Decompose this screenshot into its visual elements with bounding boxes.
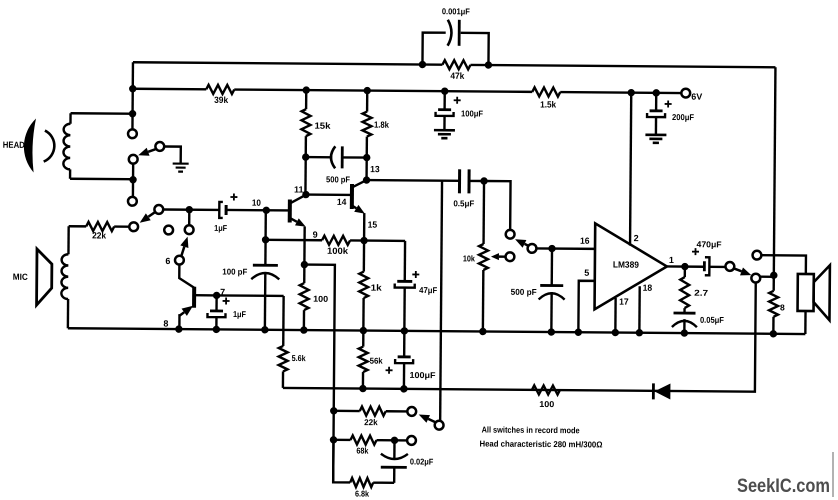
node 500pF left — [302, 153, 309, 160]
resistor 1.8k — [366, 91, 369, 112]
svg-text:2.7: 2.7 — [694, 288, 708, 298]
wire right feedback drop x=773.5 — [774, 67, 776, 275]
node 68k 0.02uF — [391, 437, 398, 444]
node 10k top — [480, 177, 487, 184]
svg-text:17: 17 — [619, 297, 629, 307]
capacitor 0.001uF — [448, 20, 452, 46]
pin 5 wire — [578, 281, 594, 333]
svg-text:LM389: LM389 — [613, 260, 639, 270]
node junction 47k left — [419, 61, 426, 68]
wire pivot to 1uF — [163, 208, 219, 211]
node 15k top — [303, 86, 310, 93]
resistor 15k — [305, 90, 308, 109]
resistor 68k — [350, 435, 376, 444]
node supply left — [129, 85, 136, 92]
svg-text:10: 10 — [252, 198, 261, 208]
svg-text:18: 18 — [643, 283, 653, 293]
wire 1uF to Q11 base — [226, 209, 290, 212]
resistor 1.5k — [532, 87, 560, 96]
wire contact to 8ohm node — [760, 275, 773, 278]
resistor 47k — [442, 60, 470, 69]
node 100uF top — [441, 87, 448, 94]
node 8ohm top — [770, 272, 777, 279]
capacitor 0.001uF bypass loop — [422, 33, 488, 66]
capacitor 1uF series — [219, 202, 223, 218]
wire contact to speaker — [761, 255, 806, 274]
svg-text:2: 2 — [634, 233, 639, 243]
inductor mic coil — [67, 226, 70, 254]
node emitter Q11 — [301, 261, 308, 268]
pin 18 wire — [638, 286, 641, 332]
wire pivot to pin16 — [537, 247, 595, 250]
potentiometer wiper arrow — [499, 255, 505, 257]
capacitor 100pF — [253, 264, 278, 267]
ground 200uF — [645, 135, 666, 143]
capacitor 200uF supply — [655, 93, 658, 111]
wire to bias network column — [303, 265, 335, 483]
svg-text:200μF: 200μF — [672, 112, 694, 122]
wire 0.5uF line y=180.5 — [367, 179, 484, 182]
switch 6 contact stub — [188, 210, 191, 225]
svg-text:1: 1 — [669, 255, 674, 265]
svg-text:15: 15 — [368, 220, 378, 230]
wire collector line y=297 — [217, 294, 284, 297]
capacitor 100uF supply bypass — [443, 91, 446, 109]
resistor 6.8k — [350, 478, 373, 487]
node head bottom junction — [129, 176, 136, 183]
resistor 1k — [363, 241, 366, 272]
svg-text:1k: 1k — [371, 283, 383, 293]
svg-text:6.8k: 6.8k — [355, 489, 369, 499]
node rail 10k — [479, 328, 486, 335]
node rail emitter mic — [175, 325, 182, 332]
capacitor 470uF — [703, 261, 706, 271]
ground 100uF — [434, 130, 455, 138]
switch input arm — [525, 244, 529, 246]
wire Q14 emitter — [363, 213, 366, 240]
wiper circle — [506, 252, 515, 261]
wire Q14 base — [306, 193, 352, 196]
node rail 1uF — [213, 326, 220, 333]
pin 2 wire — [630, 93, 631, 246]
capacitor 100uF bottom — [403, 331, 406, 357]
switch record/play pivot — [154, 205, 163, 214]
switch record pivot bottom — [435, 421, 444, 430]
switch output contact upper — [753, 251, 762, 260]
node rail 8ohm — [770, 330, 777, 337]
switch record/play mic contact — [129, 222, 138, 231]
switch play contact stub — [484, 181, 511, 230]
capacitor 500pF interstage — [306, 156, 332, 159]
node head top junction — [129, 110, 136, 117]
wire contact to bottom junction — [132, 164, 135, 197]
svg-text:68k: 68k — [356, 446, 368, 456]
svg-text:13: 13 — [370, 164, 380, 174]
wire Q11 emitter — [303, 227, 306, 265]
switch record/play arm — [148, 212, 155, 217]
svg-text:9: 9 — [313, 230, 318, 240]
wire head coil bottom — [70, 178, 133, 181]
svg-text:5: 5 — [584, 268, 589, 278]
svg-text:16: 16 — [580, 236, 590, 246]
resistor 22k bottom — [360, 407, 386, 416]
op-amp U1 LM389 — [595, 223, 668, 310]
wire 22k bottom line — [334, 410, 407, 413]
node rail 0.05uF — [681, 329, 688, 336]
svg-text:6V: 6V — [691, 92, 702, 102]
svg-text:8: 8 — [163, 318, 168, 328]
pin 17 wire — [614, 298, 617, 332]
wire head coil top — [71, 112, 133, 115]
switch head lower contact — [129, 155, 138, 164]
node 1.8k top — [364, 87, 371, 94]
transistor Q mic emitter with arrow — [179, 312, 184, 316]
switch output pivot — [725, 262, 734, 271]
switch record contact 22k — [407, 407, 416, 416]
switch head arm — [148, 149, 156, 152]
wire base line y=241 — [266, 240, 405, 241]
potentiometer 10k — [482, 181, 485, 244]
node rail 100pF — [261, 326, 268, 333]
node 22k column — [330, 407, 337, 414]
svg-text:MIC: MIC — [13, 272, 29, 282]
node 500pF input — [548, 245, 555, 252]
resistor 100 bias — [532, 385, 560, 394]
node Q11 base column — [263, 207, 270, 214]
svg-text:22k: 22k — [364, 417, 378, 427]
svg-text:100μF: 100μF — [409, 370, 435, 380]
switch output arm — [734, 268, 742, 271]
svg-text:1μF: 1μF — [233, 309, 246, 319]
wire 6.8k line — [333, 440, 394, 483]
node sw6 tap — [186, 206, 193, 213]
terminal 6V — [681, 89, 690, 98]
node 68k column — [330, 436, 337, 443]
node rail pin5 — [575, 329, 582, 336]
svg-text:Head characteristic 280 mH/300: Head characteristic 280 mH/300Ω — [479, 438, 602, 449]
svg-text:6: 6 — [165, 256, 170, 266]
node diode line 56k — [359, 385, 366, 392]
wire sw6 to transistor base — [179, 265, 194, 288]
node 500pF right / 13 — [363, 154, 370, 161]
wire top feedback line y=64.5 — [133, 62, 775, 67]
svg-text:100: 100 — [539, 399, 554, 409]
switch record/play head contact — [128, 197, 137, 206]
svg-text:0.5μF: 0.5μF — [453, 198, 474, 208]
node Q11 collector / Q14 base — [302, 191, 309, 198]
wire collector drop 5.6k — [282, 296, 285, 346]
switch head pivot — [155, 142, 164, 151]
svg-text:All switches in record mode: All switches in record mode — [482, 424, 580, 435]
inductor head coil — [69, 113, 71, 123]
resistor 2.7 — [684, 267, 686, 277]
switch output contact lower — [751, 274, 760, 283]
svg-text:15k: 15k — [314, 121, 331, 131]
svg-text:100: 100 — [313, 294, 328, 304]
svg-text:SeekIC.com: SeekIC.com — [737, 476, 830, 497]
svg-text:47μF: 47μF — [419, 285, 437, 295]
node junction 47k right — [485, 61, 492, 68]
svg-text:500 pF: 500 pF — [326, 174, 350, 184]
switch record arm bottom — [428, 419, 435, 422]
diode D1 — [652, 383, 655, 399]
node rail pin18 — [636, 329, 643, 336]
capacitor 0.02uF — [393, 440, 396, 458]
svg-text:5.6k: 5.6k — [292, 353, 306, 363]
svg-text:100 pF: 100 pF — [222, 266, 247, 276]
capacitor 47uF — [404, 241, 407, 281]
switch input pivot — [528, 244, 537, 253]
svg-text:1μF: 1μF — [214, 223, 227, 233]
svg-text:100μF: 100μF — [461, 108, 483, 118]
node rail 500pF — [548, 328, 555, 335]
wire bias column x=441.5 — [440, 181, 442, 421]
switch contact 68k — [407, 436, 416, 445]
transistor Q11 — [288, 199, 292, 222]
capacitor 500pF input — [551, 249, 554, 286]
resistor 5.6k — [279, 346, 288, 372]
wire Q11 base column — [264, 210, 267, 265]
node pin2 supply — [628, 89, 635, 96]
svg-text:1.8k: 1.8k — [374, 120, 390, 130]
wire 22k line — [69, 225, 129, 228]
node y241 left — [262, 236, 269, 243]
svg-text:0.05μF: 0.05μF — [700, 315, 724, 325]
wire pivot to ground — [164, 146, 181, 163]
svg-text:56k: 56k — [370, 356, 383, 366]
resistor 56k — [362, 331, 365, 347]
node rail 100 — [300, 326, 307, 333]
node pin1 — [681, 263, 688, 270]
node collector 1uF — [213, 292, 220, 299]
svg-text:39k: 39k — [214, 95, 229, 105]
transistor Q mic collector — [194, 294, 216, 297]
svg-text:14: 14 — [337, 197, 347, 207]
resistor 8 speaker — [772, 275, 775, 290]
svg-text:11: 11 — [294, 185, 304, 195]
svg-text:470μF: 470μF — [697, 239, 722, 249]
svg-text:100k: 100k — [327, 246, 349, 256]
transistor Q mic PNP base bar — [192, 287, 196, 308]
resistor 39k — [206, 85, 234, 94]
transistor Q14 — [350, 184, 354, 209]
node emitter Q14 junction — [360, 237, 367, 244]
pin 1 wire — [667, 265, 704, 268]
node rail 47uF/100uF — [401, 327, 408, 334]
capacitor 1uF shunt — [215, 295, 218, 310]
switch play contact — [506, 230, 515, 239]
switch 6 contact — [185, 225, 194, 234]
svg-text:500 pF: 500 pF — [511, 287, 537, 297]
svg-text:HEAD: HEAD — [3, 140, 25, 150]
node Q14 collector — [363, 176, 370, 183]
resistor 100 — [303, 265, 306, 283]
svg-text:10k: 10k — [463, 253, 475, 263]
wire supply line y=91 — [133, 89, 681, 93]
node rail pin17 — [612, 329, 619, 336]
node rail 1k/56k — [360, 327, 367, 334]
MIC symbol — [37, 249, 52, 305]
switch head upper contact — [128, 129, 137, 138]
speaker — [798, 274, 814, 311]
svg-text:0.02μF: 0.02μF — [410, 456, 434, 466]
node diode line 100uF — [400, 385, 407, 392]
svg-text:22k: 22k — [92, 230, 107, 240]
switch unused contact — [164, 226, 173, 235]
capacitor 0.5uF — [458, 169, 461, 193]
capacitor 0.05uF — [674, 312, 696, 315]
wire contact down to diode line — [283, 279, 756, 392]
HEAD symbol crescent — [24, 118, 36, 172]
switch 6 pivot — [175, 256, 184, 265]
node 200uF top — [653, 89, 660, 96]
svg-text:8: 8 — [780, 302, 785, 312]
switch 6 arm — [181, 247, 184, 256]
wire 68k line — [334, 439, 407, 442]
resistor 22k — [86, 222, 114, 231]
ground head switch — [173, 164, 189, 172]
svg-text:1.5k: 1.5k — [540, 99, 557, 109]
svg-text:47k: 47k — [450, 71, 465, 81]
wire ground rail y=331 — [68, 328, 805, 334]
wire left column x=131.5 — [131, 62, 134, 128]
svg-text:0.001μF: 0.001μF — [442, 6, 470, 16]
resistor 100k — [322, 236, 350, 245]
